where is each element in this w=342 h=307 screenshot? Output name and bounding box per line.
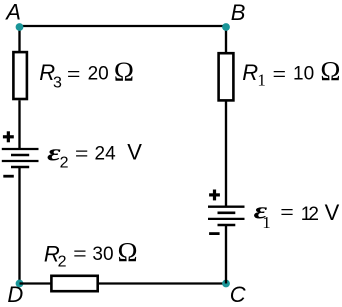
- svg-text:B: B: [231, 0, 246, 25]
- wire R3 to battery ε2: [18, 100, 20, 150]
- node A: [16, 23, 24, 31]
- battery ε1 plus terminal sign: [209, 190, 220, 201]
- svg-text:=: =: [273, 62, 287, 88]
- svg-text:=: =: [73, 242, 87, 268]
- battery ε2: [2, 149, 39, 167]
- svg-text:1: 1: [257, 71, 266, 90]
- node C: [222, 280, 230, 288]
- battery ε1 minus terminal sign: [209, 232, 220, 235]
- resistor R2: [51, 276, 97, 291]
- battery ε2 plus terminal sign: [3, 131, 14, 142]
- svg-text:20: 20: [88, 64, 109, 85]
- svg-text:2: 2: [58, 254, 67, 271]
- svg-text:24: 24: [95, 144, 117, 165]
- svg-text:R: R: [242, 60, 258, 85]
- svg-text:10: 10: [293, 64, 314, 85]
- svg-text:C: C: [230, 282, 246, 307]
- value label R1 = 10 Ohm: [242, 56, 340, 90]
- svg-text:1: 1: [262, 213, 271, 232]
- battery ε2 minus terminal sign: [3, 175, 14, 178]
- wire R2 to node C: [99, 282, 226, 284]
- wire node C to battery ε1: [225, 225, 227, 284]
- svg-text:Ω: Ω: [114, 56, 134, 86]
- svg-text:30: 30: [92, 244, 113, 265]
- svg-text:=: =: [67, 62, 81, 88]
- svg-text:Ω: Ω: [320, 56, 340, 86]
- wire node A to node B (top): [20, 25, 227, 27]
- wire ε1 to R1: [225, 101, 227, 207]
- value label ε2 = 24 V: [47, 139, 142, 171]
- resistor R3: [13, 52, 27, 99]
- value label ε1 = 12 V: [254, 198, 340, 232]
- resistor R1: [219, 53, 234, 100]
- svg-text:=: =: [280, 200, 294, 226]
- battery ε1: [208, 207, 245, 225]
- svg-text:2: 2: [308, 204, 319, 225]
- svg-text:V: V: [325, 200, 340, 225]
- wire ε2 to node D: [18, 167, 20, 284]
- svg-text:V: V: [127, 139, 142, 164]
- svg-text:2: 2: [60, 155, 69, 172]
- node D: [16, 280, 24, 288]
- wire node D to R2: [20, 282, 52, 284]
- value label R2 = 30 Ohm: [44, 237, 138, 271]
- svg-text:=: =: [75, 142, 89, 168]
- svg-text:3: 3: [53, 75, 62, 92]
- wire R1 to node B: [225, 26, 227, 52]
- svg-text:D: D: [7, 282, 23, 307]
- wire node A to R3: [18, 26, 20, 53]
- svg-text:A: A: [4, 0, 21, 25]
- node B: [222, 23, 230, 31]
- value label R3 = 20 Ohm: [39, 56, 134, 91]
- svg-text:Ω: Ω: [118, 237, 138, 267]
